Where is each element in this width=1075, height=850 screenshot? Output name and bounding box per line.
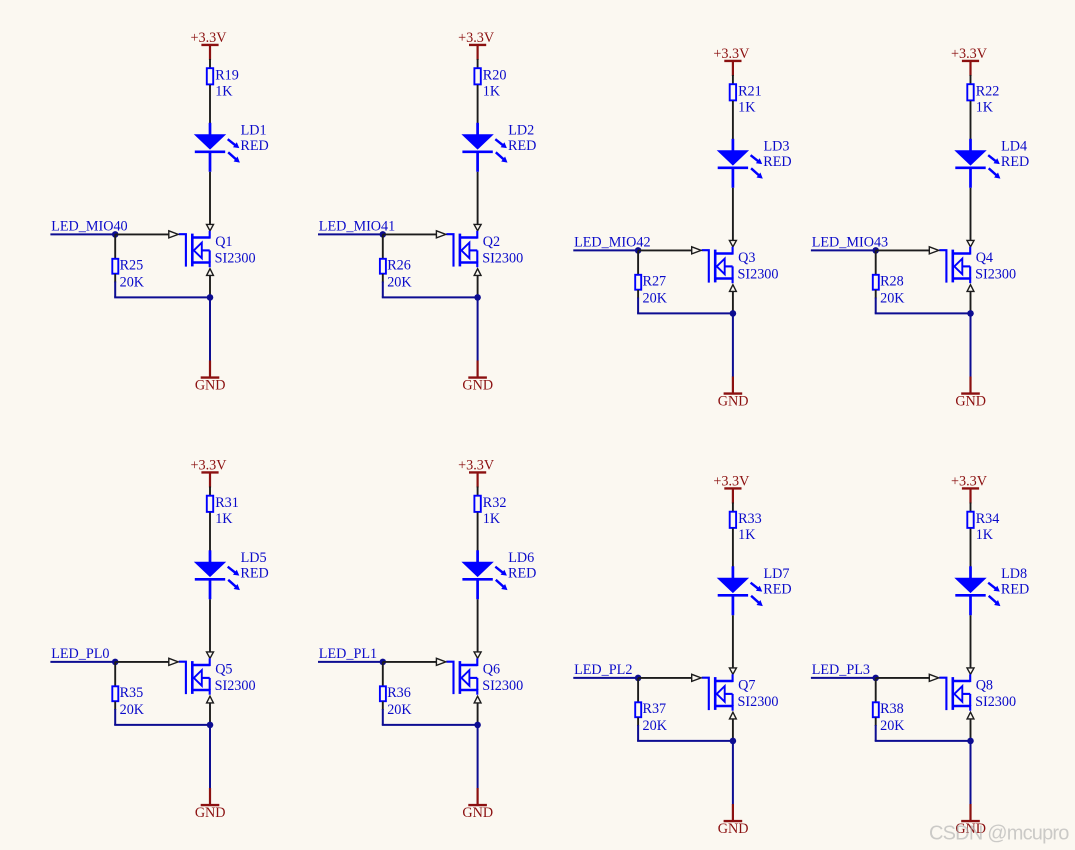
resistor R38 20K [873, 701, 905, 734]
wire [477, 599, 479, 652]
wire [970, 291, 972, 313]
LED LD6 RED [461, 550, 536, 600]
wire [50, 233, 115, 235]
drain pin arrow [967, 240, 974, 246]
svg-text:GND: GND [462, 805, 493, 821]
svg-text:R28: R28 [880, 274, 904, 290]
wire [477, 487, 479, 496]
drain pin arrow [474, 652, 481, 658]
svg-text:SI2300: SI2300 [975, 266, 1016, 282]
transistor Q3 SI2300 N-MOSFET [702, 247, 779, 283]
svg-text:Q3: Q3 [738, 250, 755, 266]
LED LD3 RED [717, 138, 792, 188]
wire [115, 661, 169, 663]
circuit 6: LED_PL1 LED driver [318, 457, 536, 820]
wire [732, 291, 734, 313]
circuit 3: LED_MIO42 LED driver [573, 46, 791, 409]
svg-text:+3.3V: +3.3V [713, 46, 750, 62]
power +3.3V (circuit 7) [713, 473, 750, 503]
wire [477, 725, 479, 789]
svg-text:CSDN @mcupro: CSDN @mcupro [929, 822, 1069, 844]
svg-text:R26: R26 [387, 258, 411, 274]
svg-text:LED_PL0: LED_PL0 [51, 646, 109, 662]
svg-text:R33: R33 [738, 511, 762, 527]
power +3.3V (circuit 2) [458, 30, 495, 60]
resistor R36 20K [380, 685, 412, 718]
resistor R31 1K [207, 495, 239, 527]
wire [637, 718, 639, 727]
LED LD5 RED [194, 550, 269, 600]
svg-text:LD6: LD6 [508, 550, 534, 566]
resistor R25 20K [112, 258, 144, 291]
source pin arrow [207, 696, 214, 703]
junction [730, 310, 737, 317]
svg-text:Q5: Q5 [215, 661, 232, 677]
wire [382, 274, 384, 283]
wire [477, 59, 479, 68]
svg-text:R37: R37 [643, 701, 667, 717]
wire [732, 313, 734, 377]
wire [383, 233, 437, 235]
svg-text:GND: GND [718, 821, 749, 837]
transistor Q4 SI2300 N-MOSFET [939, 247, 1016, 283]
svg-text:R20: R20 [483, 67, 507, 83]
junction [112, 659, 119, 666]
svg-text:GND: GND [462, 377, 493, 393]
svg-text:Q2: Q2 [483, 234, 500, 250]
wire [209, 172, 211, 225]
svg-text:Q7: Q7 [738, 677, 755, 693]
source pin arrow [730, 285, 737, 292]
wire [637, 678, 639, 702]
wire [209, 725, 211, 789]
wire [811, 249, 876, 251]
ground GND (circuit 4) [955, 377, 986, 410]
source pin arrow [967, 285, 974, 292]
svg-text:Q6: Q6 [483, 661, 500, 677]
svg-text:R32: R32 [483, 495, 507, 511]
svg-text:LD4: LD4 [1001, 138, 1027, 154]
svg-text:RED: RED [1001, 582, 1029, 598]
svg-text:R38: R38 [880, 701, 904, 717]
ground GND (circuit 7) [718, 804, 749, 837]
svg-text:1K: 1K [738, 527, 756, 543]
gate pin arrow [929, 247, 938, 254]
junction [730, 738, 737, 745]
wire [875, 312, 971, 314]
svg-text:Q1: Q1 [215, 234, 232, 250]
svg-text:GND: GND [195, 377, 226, 393]
resistor R20 1K [474, 67, 506, 99]
source pin arrow [474, 696, 481, 703]
source pin arrow [967, 712, 974, 719]
svg-text:1K: 1K [976, 527, 994, 543]
wire [970, 101, 972, 140]
svg-text:RED: RED [763, 582, 791, 598]
svg-text:20K: 20K [880, 290, 905, 306]
wire [732, 503, 734, 512]
wire [970, 741, 972, 805]
svg-text:RED: RED [508, 566, 536, 582]
wire [114, 662, 116, 686]
wire [114, 274, 116, 283]
wire [638, 677, 692, 679]
wire [573, 677, 638, 679]
resistor R35 20K [112, 685, 144, 718]
wire [383, 661, 437, 663]
circuit 2: LED_MIO41 LED driver [318, 30, 536, 393]
svg-text:LD1: LD1 [241, 122, 267, 138]
wire [477, 703, 479, 725]
ground GND (circuit 8) [955, 804, 986, 837]
svg-text:Q8: Q8 [976, 677, 993, 693]
svg-text:RED: RED [240, 566, 268, 582]
wire [970, 188, 972, 241]
circuit 4: LED_MIO43 LED driver [811, 46, 1029, 409]
source pin arrow [730, 712, 737, 719]
wire [477, 85, 479, 124]
svg-text:RED: RED [763, 154, 791, 170]
svg-text:1K: 1K [483, 83, 501, 99]
resistor R37 20K [635, 701, 667, 734]
wire [209, 275, 211, 297]
transistor Q1 SI2300 N-MOSFET [179, 231, 256, 267]
svg-text:1K: 1K [215, 511, 233, 527]
wire [209, 487, 211, 496]
wire [876, 249, 930, 251]
svg-text:SI2300: SI2300 [738, 266, 779, 282]
power +3.3V (circuit 3) [713, 46, 750, 76]
svg-text:20K: 20K [643, 718, 668, 734]
ground GND (circuit 2) [462, 361, 493, 394]
svg-text:+3.3V: +3.3V [713, 473, 750, 489]
gate pin arrow [436, 231, 445, 238]
drain pin arrow [207, 224, 214, 230]
svg-text:LD8: LD8 [1001, 566, 1027, 582]
wire [477, 275, 479, 297]
wire [970, 615, 972, 668]
power +3.3V (circuit 4) [951, 46, 988, 76]
wire [970, 75, 972, 84]
junction [474, 294, 481, 301]
svg-text:SI2300: SI2300 [482, 250, 523, 266]
svg-text:R22: R22 [976, 83, 1000, 99]
junction [474, 722, 481, 729]
drain pin arrow [967, 668, 974, 674]
wire [732, 101, 734, 140]
svg-text:R36: R36 [387, 685, 411, 701]
svg-text:RED: RED [508, 138, 536, 154]
svg-text:LD5: LD5 [241, 550, 267, 566]
wire [637, 312, 733, 314]
svg-text:Q4: Q4 [976, 250, 993, 266]
svg-text:R21: R21 [738, 83, 762, 99]
ground GND (circuit 1) [195, 361, 226, 394]
resistor R22 1K [967, 83, 999, 115]
wire [114, 296, 210, 298]
svg-text:R35: R35 [120, 685, 144, 701]
wire [573, 249, 638, 251]
circuit 7: LED_PL2 LED driver [573, 473, 791, 836]
svg-text:R27: R27 [643, 274, 667, 290]
wire [638, 249, 692, 251]
wire [732, 188, 734, 241]
svg-text:R31: R31 [215, 495, 239, 511]
resistor R21 1K [730, 83, 762, 115]
wire [875, 718, 877, 727]
gate pin arrow [436, 658, 445, 665]
svg-text:GND: GND [195, 805, 226, 821]
svg-text:20K: 20K [387, 702, 412, 718]
power +3.3V (circuit 1) [191, 30, 228, 60]
wire [318, 233, 383, 235]
LED LD2 RED [461, 122, 536, 172]
svg-text:LD2: LD2 [508, 122, 534, 138]
svg-text:RED: RED [240, 138, 268, 154]
wire [209, 59, 211, 68]
source pin arrow [207, 269, 214, 276]
wire [637, 740, 733, 742]
svg-text:LD7: LD7 [764, 566, 790, 582]
svg-text:LD3: LD3 [764, 138, 790, 154]
wire [637, 290, 639, 299]
wire [732, 529, 734, 568]
svg-text:20K: 20K [120, 702, 145, 718]
wire [970, 529, 972, 568]
gate pin arrow [169, 658, 178, 665]
wire [114, 702, 116, 711]
circuit 5: LED_PL0 LED driver [50, 457, 268, 820]
resistor R28 20K [873, 274, 905, 307]
wire [209, 513, 211, 552]
junction [112, 231, 119, 238]
wire [477, 513, 479, 552]
svg-text:R19: R19 [215, 67, 239, 83]
transistor Q7 SI2300 N-MOSFET [702, 674, 779, 710]
drain pin arrow [729, 668, 736, 674]
wire [382, 724, 478, 726]
svg-text:SI2300: SI2300 [738, 694, 779, 710]
wire [50, 661, 115, 663]
junction [635, 675, 642, 682]
svg-text:GND: GND [955, 393, 986, 409]
svg-text:SI2300: SI2300 [975, 694, 1016, 710]
svg-text:LED_PL3: LED_PL3 [812, 662, 870, 678]
transistor Q2 SI2300 N-MOSFET [446, 231, 523, 267]
resistor R19 1K [207, 67, 239, 99]
gate pin arrow [692, 247, 701, 254]
svg-text:SI2300: SI2300 [482, 678, 523, 694]
junction [207, 722, 214, 729]
wire [875, 250, 877, 274]
drain pin arrow [207, 652, 214, 658]
LED LD7 RED [717, 566, 792, 616]
junction [967, 310, 974, 317]
wire [970, 313, 972, 377]
resistor R27 20K [635, 274, 667, 307]
junction [380, 231, 387, 238]
wire [477, 297, 479, 361]
circuit 8: LED_PL3 LED driver [811, 473, 1029, 836]
wire [970, 503, 972, 512]
wire [318, 661, 383, 663]
junction [967, 738, 974, 745]
wire [382, 296, 478, 298]
LED LD8 RED [954, 566, 1029, 616]
source pin arrow [474, 269, 481, 276]
power +3.3V (circuit 8) [951, 473, 988, 503]
power +3.3V (circuit 5) [191, 457, 228, 487]
wire [732, 615, 734, 668]
svg-text:LED_PL1: LED_PL1 [319, 646, 377, 662]
ground GND (circuit 6) [462, 788, 493, 821]
svg-text:+3.3V: +3.3V [191, 30, 228, 46]
wire [382, 662, 384, 686]
gate pin arrow [929, 674, 938, 681]
svg-text:+3.3V: +3.3V [458, 457, 495, 473]
svg-text:20K: 20K [880, 718, 905, 734]
wire [876, 677, 930, 679]
svg-text:RED: RED [1001, 154, 1029, 170]
svg-text:1K: 1K [215, 83, 233, 99]
svg-text:+3.3V: +3.3V [951, 473, 988, 489]
junction [207, 294, 214, 301]
wire [875, 740, 971, 742]
wire [209, 599, 211, 652]
drain pin arrow [729, 240, 736, 246]
wire [732, 741, 734, 805]
circuit 1: LED_MIO40 LED driver [50, 30, 268, 393]
junction [872, 675, 879, 682]
wire [382, 234, 384, 258]
transistor Q5 SI2300 N-MOSFET [179, 658, 256, 694]
drain pin arrow [474, 224, 481, 230]
resistor R26 20K [380, 258, 412, 291]
wire [382, 702, 384, 711]
svg-text:1K: 1K [738, 99, 756, 115]
wire [114, 234, 116, 258]
svg-text:+3.3V: +3.3V [458, 30, 495, 46]
svg-text:1K: 1K [976, 99, 994, 115]
svg-text:LED_PL2: LED_PL2 [574, 662, 632, 678]
ground GND (circuit 5) [195, 788, 226, 821]
wire [637, 250, 639, 274]
junction [380, 659, 387, 666]
svg-text:R25: R25 [120, 258, 144, 274]
transistor Q6 SI2300 N-MOSFET [446, 658, 523, 694]
wire [477, 172, 479, 225]
wire [875, 678, 877, 702]
svg-text:20K: 20K [120, 274, 145, 290]
resistor R34 1K [967, 511, 999, 543]
gate pin arrow [692, 674, 701, 681]
transistor Q8 SI2300 N-MOSFET [939, 674, 1016, 710]
wire [970, 719, 972, 741]
svg-text:+3.3V: +3.3V [191, 457, 228, 473]
wire [115, 233, 169, 235]
wire [732, 719, 734, 741]
wire [209, 297, 211, 361]
svg-text:SI2300: SI2300 [215, 678, 256, 694]
ground GND (circuit 3) [718, 377, 749, 410]
junction [872, 247, 879, 254]
svg-text:R34: R34 [976, 511, 1000, 527]
resistor R33 1K [730, 511, 762, 543]
svg-text:1K: 1K [483, 511, 501, 527]
svg-text:+3.3V: +3.3V [951, 46, 988, 62]
svg-text:GND: GND [718, 393, 749, 409]
svg-text:SI2300: SI2300 [215, 250, 256, 266]
resistor R32 1K [474, 495, 506, 527]
junction [635, 247, 642, 254]
LED LD4 RED [954, 138, 1029, 188]
power +3.3V (circuit 6) [458, 457, 495, 487]
wire [114, 724, 210, 726]
wire [811, 677, 876, 679]
wire [875, 290, 877, 299]
wire [732, 75, 734, 84]
gate pin arrow [169, 231, 178, 238]
svg-text:20K: 20K [387, 274, 412, 290]
wire [209, 85, 211, 124]
wire [209, 703, 211, 725]
svg-text:20K: 20K [643, 290, 668, 306]
LED LD1 RED [194, 122, 269, 172]
